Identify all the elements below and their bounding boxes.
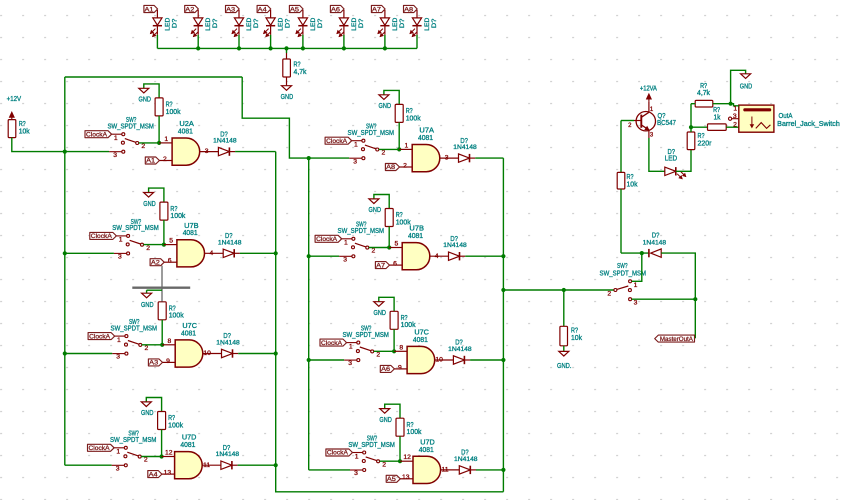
svg-text:11: 11 <box>441 467 448 474</box>
svg-text:GND: GND <box>141 410 154 417</box>
hierarchical label MasterOutA <box>655 335 695 342</box>
svg-text:R?: R? <box>700 83 707 90</box>
svg-text:3: 3 <box>113 152 117 159</box>
wire resistor to gate input (U7C row3 mid) <box>393 329 395 351</box>
wire node to R? 4,7k left <box>691 103 695 105</box>
hierarchical label A7 (top LED row) <box>371 5 385 12</box>
ground symbol (U7B row2 left) <box>144 193 154 198</box>
svg-text:GND: GND <box>379 417 392 424</box>
junction left diode rail y=353.5 <box>274 351 278 355</box>
svg-text:R?: R? <box>627 174 634 181</box>
svg-text:1N4148: 1N4148 <box>453 144 477 151</box>
barrel jack switch zigzag <box>756 123 771 129</box>
svg-text:SW_SPDT_MSM: SW_SPDT_MSM <box>600 270 647 277</box>
svg-text:R?: R? <box>401 315 408 322</box>
svg-text:Barrel_Jack_Switch: Barrel_Jack_Switch <box>777 121 840 128</box>
resistor R? 10k (ClockA pull-up) <box>8 120 16 138</box>
svg-text:R?: R? <box>19 121 26 128</box>
connector J? Barrel_Jack_Switch body <box>739 105 774 132</box>
wire LED 5 to anode bus <box>302 35 304 49</box>
svg-text:ClockA: ClockA <box>91 233 113 240</box>
resistor R? 1k <box>708 124 727 130</box>
gate output pin 3 (U2A row1 left) <box>200 151 219 153</box>
svg-text:4081: 4081 <box>413 337 428 344</box>
svg-text:5: 5 <box>395 241 399 248</box>
svg-text:LED: LED <box>164 18 171 31</box>
wire switch pin2 to gate (U7B row2 mid) <box>369 247 389 249</box>
svg-text:LED: LED <box>278 18 285 31</box>
wire resistor to gate input (U7C row3 left) <box>161 320 163 345</box>
resistor R? 10k (master pull-down) <box>560 326 568 346</box>
wire drop to MasterOutA label <box>694 299 696 338</box>
svg-text:100k: 100k <box>407 429 422 436</box>
wire diode output to rail (U7B row2 mid) <box>465 255 503 257</box>
svg-text:3: 3 <box>348 360 352 367</box>
wire master switch pin1 riser <box>632 253 642 281</box>
wire R? 1k row <box>691 126 708 128</box>
svg-text:1N4148: 1N4148 <box>443 242 467 249</box>
resistor R? 100k (U2A row1 left) <box>155 98 163 116</box>
jack pin3 stub with NC circle <box>729 117 732 120</box>
svg-text:A2: A2 <box>185 6 194 13</box>
svg-text:A1: A1 <box>146 158 156 165</box>
svg-text:U7D: U7D <box>420 439 435 446</box>
AND gate U7D 4081 (U7D row4 mid) <box>413 456 441 483</box>
resistor R? 4,7k (LED bus pull-down) <box>283 59 291 77</box>
LED D? no.5 symbol <box>296 10 308 37</box>
AND gate U2A 4081 (U2A row1 left) <box>172 138 200 165</box>
power symbol +12VA <box>648 97 650 102</box>
svg-text:2: 2 <box>141 143 145 150</box>
hierarchical label A5 (top LED row) <box>289 5 303 12</box>
svg-text:R?: R? <box>294 62 301 69</box>
svg-text:100k: 100k <box>168 422 183 429</box>
wire base stub <box>621 120 634 122</box>
wire switch pin2 to gate (U7D row4 mid) <box>380 460 400 462</box>
junction riser / diode wire <box>640 251 644 255</box>
junction node 220r/1k/4,7k <box>689 125 693 129</box>
svg-text:2: 2 <box>146 245 150 252</box>
diode D? 1N4148 (U7B row2 mid) <box>449 252 460 260</box>
junction resistor/switch/gate (U7B row2 mid) <box>387 245 391 249</box>
svg-text:D?: D? <box>358 18 365 28</box>
gate pin 2 stub (U2A row1 left) <box>159 160 172 162</box>
svg-text:A7: A7 <box>376 262 386 269</box>
svg-text:220r: 220r <box>698 140 713 147</box>
AND gate U7B 4081 (U7B row2 mid) <box>402 243 430 270</box>
hierarchical label A1 (U2A row1 left) <box>145 157 159 164</box>
svg-text:LED: LED <box>246 18 253 31</box>
svg-text:1N4148: 1N4148 <box>448 346 472 353</box>
junction ClockA left rail row3 <box>63 351 67 355</box>
gate output pin 11 (U7D row4 left) <box>202 464 221 466</box>
svg-text:4081: 4081 <box>180 442 195 449</box>
wire R? 4,7k right to jack pin1 <box>713 103 731 105</box>
wire emitter to LED <box>649 138 665 171</box>
svg-text:LED: LED <box>205 18 212 31</box>
wire emitter chain vertical <box>620 121 622 173</box>
gate output pin 4 (U7B row2 mid) <box>430 255 449 257</box>
svg-text:ClockA: ClockA <box>89 333 111 340</box>
junction left diode rail y=465.2 <box>274 463 278 467</box>
svg-text:10: 10 <box>435 357 443 364</box>
switch SW? SW_SPDT_MSM (U7C row3 left) <box>111 319 158 361</box>
diode D? 1N4148 (master, pointing left) <box>651 249 662 257</box>
svg-text:9: 9 <box>398 364 402 371</box>
gate pin 13 stub (U7D row4 mid) <box>400 478 413 480</box>
svg-text:3: 3 <box>116 354 120 361</box>
svg-text:4,7k: 4,7k <box>697 90 710 97</box>
LED D? no.2 symbol <box>191 10 203 37</box>
svg-text:3: 3 <box>343 256 347 263</box>
graphic thick gray line (row3 left) <box>132 287 190 289</box>
barrel jack tip contact bar <box>743 108 771 111</box>
svg-text:R?: R? <box>168 415 175 422</box>
switch SW? SW_SPDT_MSM (U7D row4 left) <box>110 431 157 473</box>
svg-text:SW_SPDT_MSM: SW_SPDT_MSM <box>111 325 158 332</box>
hierarchical label A7 (U7B row2 mid) <box>375 262 389 269</box>
hierarchical label A4 (top LED row) <box>257 5 271 12</box>
AND gate U7A 4081 (U7A row1 mid) <box>412 145 440 172</box>
wire GND to resistor (U7A row1 mid) <box>384 90 399 104</box>
svg-text:11: 11 <box>203 462 210 469</box>
hierarchical label A8 (U7A row1 mid) <box>385 164 399 171</box>
svg-text:R?: R? <box>166 102 173 109</box>
resistor R? 100k (U7A row1 mid) <box>395 104 403 122</box>
svg-text:LED: LED <box>392 18 399 31</box>
gate output pin 10 (U7C row3 mid) <box>435 359 454 361</box>
svg-text:SW_SPDT_MSM: SW_SPDT_MSM <box>338 228 385 235</box>
junction middle diode rail y=290.0 <box>501 288 505 292</box>
svg-text:ClockA: ClockA <box>316 236 338 243</box>
AND gate U7D 4081 (U7D row4 left) <box>175 452 203 479</box>
wire resistor to ground <box>286 77 288 85</box>
svg-text:A5: A5 <box>290 6 299 13</box>
wire GND to resistor (U7B row2 left) <box>149 188 164 202</box>
wire node up to R? 4,7k <box>690 104 692 128</box>
gate pin 12 stub (U7D row4 mid) <box>400 460 413 462</box>
svg-text:100k: 100k <box>169 313 184 320</box>
LED D? no.1 symbol <box>150 10 162 37</box>
junction ClockA middle rail row2 <box>307 254 311 258</box>
svg-text:1: 1 <box>116 449 120 456</box>
wire LED 8 to anode bus <box>416 35 418 49</box>
svg-text:ClockA: ClockA <box>327 450 349 457</box>
hierarchical label ClockA (U7A row1 mid) <box>325 137 352 144</box>
wire bus to resistor R? 4,7k <box>286 48 288 53</box>
wire diode output to rail (U7D row4 left) <box>238 464 276 466</box>
svg-text:12: 12 <box>165 450 173 457</box>
svg-text:2: 2 <box>382 150 386 157</box>
wire GND to resistor (U7B row2 mid) <box>374 195 389 209</box>
diode pigtail (U7A row1 mid) <box>470 157 476 159</box>
svg-text:10k: 10k <box>627 182 638 189</box>
svg-text:3: 3 <box>445 155 449 162</box>
svg-text:SW_SPDT_MSM: SW_SPDT_MSM <box>112 225 159 232</box>
svg-text:100k: 100k <box>170 213 185 220</box>
wire LED 2 to anode bus <box>197 35 199 49</box>
LED D? no.3 symbol <box>232 10 244 37</box>
junction on LED bus at A6 <box>342 46 346 50</box>
resistor R? 220r <box>687 132 695 150</box>
svg-text:1N4148: 1N4148 <box>213 138 237 145</box>
wire transistor branch to diode <box>621 252 649 254</box>
hierarchical label A2 (U7B row2 left) <box>150 259 164 266</box>
wire LED 7 to anode bus <box>384 35 386 49</box>
svg-text:R?: R? <box>406 108 413 115</box>
hierarchical label A8 (top LED row) <box>404 5 418 12</box>
junction middle diode rail y=256.2 <box>501 254 505 258</box>
wire LED to R? 220r <box>676 150 691 172</box>
diode pigtail (U7D row4 mid) <box>470 469 476 471</box>
wire switch pin3 feed (U7B row2 left) <box>65 252 114 254</box>
wire switch pin2 to gate (U7C row3 mid) <box>374 350 394 352</box>
wire resistor to gate input (U2A row1 left) <box>158 116 160 143</box>
hierarchical label ClockA (U7C row3 left) <box>88 333 115 340</box>
gate pin 9 stub (U7C row3 left) <box>163 361 176 363</box>
resistor R? 100k (U7C row3 mid) <box>390 311 398 329</box>
jack pin1 stub <box>731 104 739 106</box>
junction resistor/switch/gate (U7C row3 left) <box>160 343 164 347</box>
svg-text:MasterOutA: MasterOutA <box>660 336 694 343</box>
wire switch pin3 feed (U7D row4 left) <box>65 464 112 466</box>
gate pin 12 stub (U7D row4 left) <box>162 456 175 458</box>
svg-text:U7A: U7A <box>419 128 434 135</box>
junction on LED bus at pull-down resistor <box>284 46 288 50</box>
wire ClockA left rail (vertical) <box>64 77 66 465</box>
wire R? 220r up to node <box>690 127 692 132</box>
svg-text:D?: D? <box>285 18 292 28</box>
gate pin 9 stub (U7C row3 mid) <box>394 368 407 370</box>
svg-text:A3: A3 <box>149 360 159 367</box>
svg-text:U2A: U2A <box>179 121 194 128</box>
svg-text:GND: GND <box>138 97 151 104</box>
svg-text:100k: 100k <box>401 322 416 329</box>
junction on LED bus at A3 <box>237 46 241 50</box>
wire left-column diode output rail <box>276 152 504 492</box>
svg-text:U7B: U7B <box>409 226 424 233</box>
resistor R? 10k (transistor base chain) <box>617 172 625 189</box>
wire diode output to rail (U7D row4 mid) <box>476 469 503 471</box>
resistor R? 100k (U7C row3 left) <box>158 302 166 320</box>
diode pigtail (U7C row3 left) <box>233 353 239 355</box>
wire ClockA route to middle column <box>242 77 309 158</box>
wire R? 10k to ground <box>563 346 565 352</box>
hierarchical label ClockA (U7C row3 mid) <box>320 339 347 346</box>
AND gate U7C 4081 (U7C row3 mid) <box>407 346 435 373</box>
svg-text:1: 1 <box>354 142 358 149</box>
svg-text:2: 2 <box>376 352 380 359</box>
svg-text:1N4148: 1N4148 <box>643 239 667 246</box>
svg-text:D?: D? <box>652 232 660 239</box>
svg-text:A4: A4 <box>258 6 267 13</box>
svg-text:4081: 4081 <box>418 135 433 142</box>
svg-text:R?: R? <box>396 212 403 219</box>
svg-text:4: 4 <box>210 250 214 257</box>
hierarchical label ClockA (U7B row2 left) <box>90 232 117 239</box>
svg-text:3: 3 <box>118 254 122 261</box>
wire switch pin3 feed (U7C row3 mid) <box>309 359 344 361</box>
svg-text:A8: A8 <box>386 164 396 171</box>
diode D? 1N4148 (U7C row3 mid) <box>453 356 464 364</box>
svg-text:U7D: U7D <box>182 435 197 442</box>
wire R? 10k down to master diode wire <box>620 189 622 253</box>
svg-text:A3: A3 <box>226 6 235 13</box>
AND gate U7B 4081 (U7B row2 left) <box>177 240 205 267</box>
graphic line from A2 label down to row3 resistor <box>161 266 163 302</box>
gate pin 6 stub (U7B row2 mid) <box>390 264 403 266</box>
hierarchical label A6 (top LED row) <box>330 5 344 12</box>
svg-text:GND: GND <box>373 310 386 317</box>
hierarchical label A3 (top LED row) <box>226 5 240 12</box>
wire GND branch (top right) <box>731 70 746 103</box>
wire R? 1k to jack pin2 <box>726 126 739 128</box>
wire middle-column diode output rail <box>502 158 504 492</box>
wire resistor to gate input (U7B row2 mid) <box>388 227 390 248</box>
ground symbol row3 left (side-connected) <box>147 289 162 291</box>
svg-text:10: 10 <box>203 350 211 357</box>
svg-text:R?: R? <box>169 306 176 313</box>
svg-text:4081: 4081 <box>181 330 196 337</box>
wire switch pin3 feed (U7D row4 mid) <box>309 469 350 471</box>
junction resistor/switch/gate (U7D row4 mid) <box>398 459 402 463</box>
wire resistor to gate input (U7A row1 mid) <box>398 122 400 149</box>
gate pin 8 stub (U7C row3 left) <box>162 344 175 346</box>
wire GND to resistor (U7C row3 mid) <box>379 297 394 311</box>
wire diode output to rail (U7C row3 mid) <box>470 359 503 361</box>
svg-text:R?: R? <box>713 107 720 114</box>
junction resistor/switch/gate (U2A row1 left) <box>157 141 161 145</box>
wire resistor to gate input (U7D row4 mid) <box>399 436 401 461</box>
junction jack pin1 / GND branch <box>729 102 733 106</box>
gate output pin 10 (U7C row3 left) <box>203 353 222 355</box>
ground symbol below R? 4,7k <box>282 86 292 91</box>
switch SW? SW_SPDT_MSM (U7A row1 mid) <box>348 124 395 166</box>
svg-text:6: 6 <box>393 261 397 268</box>
junction ClockA middle rail row1 <box>307 156 311 160</box>
wire LED cathode bus (horizontal) <box>157 47 417 49</box>
diode pigtail (U2A row1 left) <box>229 151 235 153</box>
svg-text:A5: A5 <box>387 476 397 483</box>
wire GND to resistor (U7D row4 mid) <box>385 404 400 418</box>
svg-text:D?: D? <box>399 18 406 28</box>
power symbol +12V <box>11 115 13 120</box>
svg-text:GND: GND <box>379 103 392 110</box>
svg-text:LED: LED <box>310 18 317 31</box>
wire master switch pin3 to MasterOutA <box>632 298 696 300</box>
svg-text:SW_SPDT_MSM: SW_SPDT_MSM <box>348 442 395 449</box>
svg-text:100k: 100k <box>406 115 421 122</box>
svg-text:1: 1 <box>114 135 118 142</box>
LED D? no.6 symbol <box>337 10 349 37</box>
ground symbol (top right) <box>741 74 751 79</box>
svg-text:R?: R? <box>698 133 705 140</box>
wire switch pin3 feed (U7B row2 mid) <box>309 255 340 257</box>
wire LED 6 to anode bus <box>343 35 345 49</box>
svg-text:D?: D? <box>171 18 178 28</box>
svg-text:1N4148: 1N4148 <box>216 451 240 458</box>
svg-text:A8: A8 <box>404 6 413 13</box>
svg-text:2: 2 <box>403 162 407 169</box>
svg-text:SW_SPDT_MSM: SW_SPDT_MSM <box>342 332 389 339</box>
svg-text:9: 9 <box>166 358 170 365</box>
svg-text:1: 1 <box>733 106 737 113</box>
svg-text:2: 2 <box>382 461 386 468</box>
hierarchical label A6 (U7C row3 mid) <box>380 365 394 372</box>
hierarchical label A1 (top LED row) <box>144 5 158 12</box>
svg-text:13: 13 <box>402 474 410 481</box>
diode D? 1N4148 (U7C row3 left) <box>222 349 233 357</box>
svg-text:R?: R? <box>407 422 414 429</box>
diode D? 1N4148 (U7B row2 left) <box>223 249 234 257</box>
diode D? 1N4148 (U2A row1 left) <box>218 147 229 155</box>
wire switch pin2 to gate (U7C row3 left) <box>142 344 162 346</box>
ground symbol (U7D row4 left) <box>141 402 151 407</box>
switch SW? SW_SPDT_MSM (U7B row2 mid) <box>338 222 385 264</box>
wire GND to resistor (U7D row4 left) <box>146 398 161 412</box>
wire resistor to gate input (U7D row4 left) <box>161 430 163 457</box>
junction ClockA rail / +12V feed <box>63 150 67 154</box>
hierarchical label A4 (U7D row4 left) <box>148 471 162 478</box>
wire LED 4 to anode bus <box>270 35 272 49</box>
junction on LED bus at A7 <box>383 46 387 50</box>
svg-text:A6: A6 <box>381 366 391 373</box>
switch SW? SW_SPDT_MSM (U2A row1 left) <box>107 117 154 159</box>
wire LED 1 to anode bus <box>156 35 158 49</box>
svg-text:12: 12 <box>403 454 411 461</box>
svg-text:4081: 4081 <box>419 447 434 454</box>
svg-text:ClockA: ClockA <box>86 131 108 138</box>
transistor Q? BC547 <box>628 101 655 138</box>
svg-text:OutA: OutA <box>779 113 793 120</box>
svg-text:1: 1 <box>117 337 121 344</box>
LED D? no.4 symbol <box>264 10 276 37</box>
svg-text:+12VA: +12VA <box>640 86 657 93</box>
svg-text:4081: 4081 <box>183 230 198 237</box>
gate pin 1 stub (U2A row1 left) <box>159 142 172 144</box>
svg-text:SW_SPDT_MSM: SW_SPDT_MSM <box>107 124 154 131</box>
svg-text:2: 2 <box>372 248 376 255</box>
svg-text:D?: D? <box>253 18 260 28</box>
gate output pin 4 (U7B row2 left) <box>205 252 224 254</box>
wire LED 3 to anode bus <box>238 35 240 49</box>
junction on LED bus at A2 <box>196 46 200 50</box>
diode pigtail (U7D row4 left) <box>232 464 238 466</box>
hierarchical label A5 (U7D row4 mid) <box>386 475 400 482</box>
ground symbol (U2A row1 left) <box>139 88 149 93</box>
svg-text:1N4148: 1N4148 <box>454 456 478 463</box>
svg-text:3: 3 <box>354 470 358 477</box>
svg-text:A2: A2 <box>151 259 161 266</box>
svg-text:1: 1 <box>119 237 123 244</box>
junction on LED bus at A4 <box>269 46 273 50</box>
junction master bus / pull-down <box>562 288 566 292</box>
gate pin 2 stub (U7A row1 mid) <box>400 166 413 168</box>
LED D? no.7 symbol <box>378 10 390 37</box>
svg-text:3: 3 <box>353 158 357 165</box>
diode D? 1N4148 (U7A row1 mid) <box>459 154 470 162</box>
svg-text:3: 3 <box>205 148 209 155</box>
svg-text:GND: GND <box>369 207 382 214</box>
ground symbol (U7B row2 mid) <box>369 199 379 204</box>
switch SW? SW_SPDT_MSM (U7D row4 mid) <box>348 435 395 477</box>
diode pigtail (U7C row3 mid) <box>464 359 470 361</box>
switch SW? SW_SPDT_MSM (U7B row2 left) <box>112 219 159 261</box>
svg-text:D?: D? <box>431 18 438 28</box>
gate pin 6 stub (U7B row2 left) <box>164 261 177 263</box>
junction resistor/switch/gate (U7A row1 mid) <box>397 147 401 151</box>
svg-text:1: 1 <box>634 282 638 289</box>
